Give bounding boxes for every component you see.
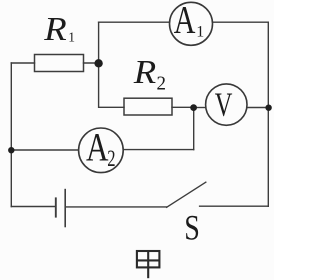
wire top to A1 [99, 21, 170, 23]
wire A1 to right rail [213, 21, 269, 23]
label R2 [133, 52, 166, 94]
svg-text:R: R [133, 52, 157, 90]
svg-text:1: 1 [196, 24, 204, 41]
wire battery to switch [65, 206, 166, 208]
wire node to R2 [99, 63, 124, 107]
wire right rail [267, 22, 269, 206]
label R1 [43, 9, 75, 47]
svg-text:A: A [86, 125, 109, 170]
wire A2 right lead [123, 149, 194, 151]
resistor R1 [35, 55, 84, 72]
ammeter A1 [170, 0, 213, 45]
wire A2 branch vertical [193, 108, 195, 150]
wire R1 left lead [11, 62, 34, 64]
voltmeter V [206, 84, 247, 125]
svg-text:R: R [43, 9, 67, 47]
node right rail at voltmeter [265, 105, 271, 111]
wire R2 right lead [172, 106, 194, 108]
resistor R2 [124, 98, 172, 115]
ammeter A2 [79, 125, 124, 173]
label 甲 [137, 251, 160, 278]
wire switch to right rail [200, 205, 269, 207]
switch S blade [167, 182, 206, 207]
wire node to voltmeter [194, 107, 206, 109]
node junction R1-A1-R2 [94, 59, 102, 67]
wire A1 branch vertical [98, 22, 100, 63]
node left rail at A2 [8, 147, 14, 153]
battery [56, 189, 65, 228]
wire left rail [10, 63, 12, 207]
svg-text:2: 2 [107, 147, 115, 172]
svg-text:A: A [174, 0, 196, 42]
wire voltmeter to right rail [247, 107, 268, 109]
svg-text:S: S [184, 207, 200, 247]
wire R1 right lead [84, 62, 99, 64]
wire bottom left to battery [11, 206, 55, 208]
svg-text:1: 1 [68, 29, 75, 44]
svg-text:2: 2 [157, 73, 166, 95]
wire A2 left lead [11, 149, 78, 151]
node junction R2-V-A2 [190, 104, 197, 111]
svg-text:V: V [215, 87, 233, 124]
